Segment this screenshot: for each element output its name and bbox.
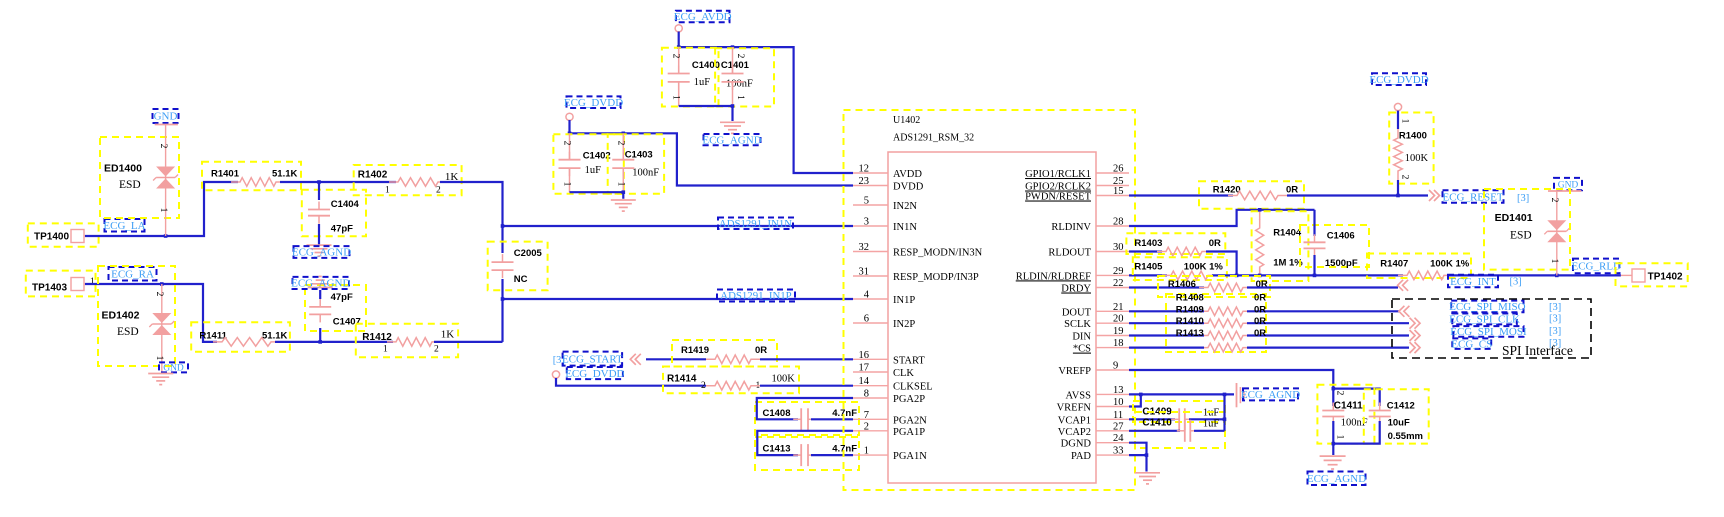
svg-text:R1402: R1402 xyxy=(358,170,388,181)
wire ADS1291_IN1P to pin 4 xyxy=(503,298,854,300)
wire R1411 to R1412 xyxy=(275,341,393,343)
svg-text:ADS1291_RSM_32: ADS1291_RSM_32 xyxy=(893,133,974,144)
svg-text:ECG_SPI_MOSI: ECG_SPI_MOSI xyxy=(1450,326,1527,338)
svg-text:26: 26 xyxy=(1113,164,1124,175)
wire RLDOUT through R1403 xyxy=(1129,250,1162,252)
svg-text:2: 2 xyxy=(701,381,706,391)
wire C1412 bottom rail xyxy=(1333,421,1379,444)
wire DVDD rail xyxy=(570,120,854,186)
svg-text:VREFP: VREFP xyxy=(1058,366,1091,377)
pin 9 VREFP xyxy=(1096,369,1129,371)
svg-text:ECG_AGND: ECG_AGND xyxy=(1241,389,1300,401)
svg-text:RLDINV: RLDINV xyxy=(1051,222,1091,233)
svg-text:PWDN/RESET: PWDN/RESET xyxy=(1025,192,1092,203)
pin 11 VCAP1 xyxy=(1096,418,1129,420)
svg-text:IN2N: IN2N xyxy=(893,201,917,212)
svg-text:13: 13 xyxy=(1113,385,1124,396)
svg-text:51.1K: 51.1K xyxy=(272,169,297,180)
capacitor C1413 4.7nF xyxy=(755,437,859,470)
sheet-entry chevrons ECG_RESET xyxy=(1429,190,1440,201)
pin 26 GPIO1/RCLK1 xyxy=(1096,172,1129,174)
svg-text:[3]: [3] xyxy=(1549,302,1561,313)
pin 29 RLDIN/RLDREF xyxy=(1096,274,1129,276)
op-amp/afe IC U1402 ADS1291 body xyxy=(844,110,1136,490)
svg-text:2: 2 xyxy=(864,421,869,432)
capacitor C1409 1uF xyxy=(1133,401,1225,422)
svg-text:33: 33 xyxy=(1113,446,1124,457)
svg-text:14: 14 xyxy=(859,376,870,387)
svg-text:GND: GND xyxy=(163,364,184,374)
net label ECG_RESET with [3] xyxy=(1443,190,1504,203)
ground symbol (DGND/PAD) xyxy=(1135,472,1160,474)
svg-text:2: 2 xyxy=(735,54,745,59)
svg-text:DOUT: DOUT xyxy=(1062,307,1092,318)
sheet-entry chevrons ECG_INT xyxy=(1398,280,1409,291)
svg-text:18: 18 xyxy=(1113,338,1124,349)
svg-text:5: 5 xyxy=(864,196,869,207)
svg-text:CLKSEL: CLKSEL xyxy=(893,382,933,393)
resistor R1419 0R xyxy=(672,340,777,367)
svg-text:2: 2 xyxy=(434,345,439,355)
svg-text:SCLK: SCLK xyxy=(1064,319,1091,330)
pin 1 PGA1N xyxy=(853,454,888,456)
wire ECG_CS xyxy=(1129,347,1204,349)
pin 23 DVDD xyxy=(853,185,888,187)
net label ECG_SPI_MOSI with [3] xyxy=(1453,326,1523,337)
ground symbol (C1402/C1403) xyxy=(611,199,636,201)
svg-text:R1408: R1408 xyxy=(1176,293,1204,304)
svg-text:ECG_AGND: ECG_AGND xyxy=(1307,473,1366,485)
svg-text:R1404: R1404 xyxy=(1273,228,1302,239)
wire PGA2P to C1408 xyxy=(757,398,853,419)
svg-text:100K 1%: 100K 1% xyxy=(1430,259,1470,270)
svg-text:NC: NC xyxy=(514,274,528,285)
power port ECG_AGND (below C1411) xyxy=(1308,472,1366,486)
svg-text:ED1402: ED1402 xyxy=(102,310,140,322)
pin 5 IN2N xyxy=(853,204,888,206)
svg-text:ECG_RESET: ECG_RESET xyxy=(1442,191,1503,203)
pin 20 SCLK xyxy=(1096,322,1129,324)
svg-text:15: 15 xyxy=(1113,186,1124,197)
svg-text:10: 10 xyxy=(1113,397,1124,408)
wire VCAP join to AVSS rail xyxy=(1223,394,1225,430)
wire CLKSEL xyxy=(556,378,706,386)
svg-text:ECG_DVDD: ECG_DVDD xyxy=(565,368,624,380)
svg-text:2: 2 xyxy=(671,54,681,59)
svg-text:*CS: *CS xyxy=(1073,344,1091,355)
svg-text:0R: 0R xyxy=(1254,328,1266,339)
svg-text:7: 7 xyxy=(864,410,869,421)
resistor R1401 51.1K xyxy=(202,162,301,191)
ESD diode ED1401 xyxy=(1484,189,1570,270)
resistor R1406 0R xyxy=(1158,276,1270,297)
capacitor C1402 1uF xyxy=(553,134,623,193)
wire R1419 to pin 16 xyxy=(760,358,853,360)
pin 3 IN1N xyxy=(853,225,888,227)
wire ECG_LA from TP1400 to R1401 xyxy=(85,182,238,236)
wire C1408 to pin 7 xyxy=(811,418,853,420)
net label ECG_SPI_CLK with [3] xyxy=(1452,314,1517,325)
svg-text:R1410: R1410 xyxy=(1176,316,1204,327)
wire AVSS/VREFN to ECG_AGND xyxy=(1129,393,1234,395)
wire RLDINV to feedback rail xyxy=(1129,210,1315,226)
svg-text:1: 1 xyxy=(864,446,869,457)
pin 15 PWDN/RESET xyxy=(1096,195,1129,197)
ground symbol (C1400/C1401) xyxy=(720,121,745,123)
svg-text:0R: 0R xyxy=(1254,304,1266,315)
svg-text:VCAP2: VCAP2 xyxy=(1058,427,1091,438)
svg-text:2: 2 xyxy=(562,141,572,146)
svg-text:23: 23 xyxy=(859,176,870,187)
svg-text:2: 2 xyxy=(154,292,164,297)
power port ECG_DVDD (C1402) xyxy=(567,96,621,108)
svg-text:C1402: C1402 xyxy=(583,151,611,162)
pin 33 PAD xyxy=(1096,454,1129,456)
pin 31 RESP_MODP/IN3P xyxy=(853,275,888,277)
svg-text:DVDD: DVDD xyxy=(893,182,924,193)
resistor R1403 0R xyxy=(1126,233,1225,254)
svg-text:R1406: R1406 xyxy=(1168,279,1196,290)
svg-text:22: 22 xyxy=(1113,278,1124,289)
svg-text:R1405: R1405 xyxy=(1134,262,1163,273)
svg-text:100nF: 100nF xyxy=(726,79,753,90)
svg-text:1: 1 xyxy=(562,182,572,187)
svg-text:100nF: 100nF xyxy=(632,168,659,179)
svg-text:CLK: CLK xyxy=(893,368,914,379)
sheet-entry chevrons ECG_START xyxy=(630,354,641,365)
svg-text:PGA2N: PGA2N xyxy=(893,415,927,426)
resistor R1412 1K xyxy=(356,324,458,358)
svg-text:0R: 0R xyxy=(1254,293,1266,304)
svg-text:ECG_DVDD: ECG_DVDD xyxy=(564,97,623,109)
pin 6 IN2P xyxy=(853,322,888,324)
resistor R1420 0R xyxy=(1199,181,1304,209)
pin 27 VCAP2 xyxy=(1096,430,1129,432)
svg-text:ECG_SPI_CLK: ECG_SPI_CLK xyxy=(1449,314,1520,326)
svg-text:2: 2 xyxy=(1549,198,1559,203)
svg-text:1: 1 xyxy=(385,186,390,196)
svg-text:1: 1 xyxy=(383,345,388,355)
svg-text:[3]: [3] xyxy=(1549,314,1561,325)
svg-text:ECG_CS: ECG_CS xyxy=(1451,338,1492,350)
wire START xyxy=(646,358,706,360)
svg-text:C1401: C1401 xyxy=(721,60,750,71)
capacitor C1400 1uF xyxy=(662,48,719,107)
svg-text:ADS1291_IN1P: ADS1291_IN1P xyxy=(720,290,791,302)
svg-text:4: 4 xyxy=(864,290,870,301)
capacitor C1406 1500pF xyxy=(1300,225,1369,267)
svg-text:28: 28 xyxy=(1113,217,1124,228)
svg-text:47pF: 47pF xyxy=(331,224,353,235)
svg-text:100K: 100K xyxy=(772,374,796,385)
capacitor C2005 NC xyxy=(488,242,548,291)
svg-text:2: 2 xyxy=(615,141,625,146)
wire R1401 to R1402 xyxy=(280,181,396,183)
svg-text:START: START xyxy=(893,355,925,366)
wire C1402/C1403 ground rail xyxy=(570,192,624,199)
svg-text:6: 6 xyxy=(864,314,869,325)
svg-text:21: 21 xyxy=(1113,302,1124,313)
svg-text:29: 29 xyxy=(1113,266,1124,277)
net label ADS1291_IN1P xyxy=(717,290,795,302)
resistor R1411 51.1K xyxy=(191,322,290,351)
power port GND (ED1402) xyxy=(159,362,188,372)
svg-text:R1401: R1401 xyxy=(211,169,240,180)
resistor R1407 100K 1% xyxy=(1367,254,1471,279)
pin 12 AVDD xyxy=(853,172,888,174)
wire C1413 to pin 1 xyxy=(811,454,853,456)
svg-text:1uF: 1uF xyxy=(1203,419,1220,430)
svg-text:IN2P: IN2P xyxy=(893,319,915,330)
power port ECG_AGND (below C1404) xyxy=(307,244,332,246)
svg-text:ECG_LA: ECG_LA xyxy=(103,220,145,232)
svg-text:ECG_AGND: ECG_AGND xyxy=(291,278,350,290)
wire PWDN/RESET to ECG_RESET xyxy=(1129,194,1233,196)
net label ECG_INT with [3] xyxy=(1448,275,1498,288)
testpoint TP1400 xyxy=(28,223,99,246)
svg-text:1uF: 1uF xyxy=(585,165,602,176)
capacitor C1411 100nF xyxy=(1317,385,1374,444)
svg-text:ECG_AGND: ECG_AGND xyxy=(702,134,761,146)
wire VCAP2 through C1410 xyxy=(1129,430,1180,432)
wire DRDY to ECG_INT xyxy=(1129,286,1204,288)
pin 17 CLK xyxy=(853,371,888,373)
svg-text:1: 1 xyxy=(1400,119,1410,124)
svg-text:[3]: [3] xyxy=(1517,193,1529,204)
ESD diode ED1400 xyxy=(100,137,179,218)
svg-text:2: 2 xyxy=(158,144,168,149)
wire C2005 lower to R1412 node xyxy=(501,279,503,342)
wire RLDIN/RLDREF to ECG_RLD xyxy=(1129,274,1167,276)
svg-text:C1404: C1404 xyxy=(331,199,360,210)
capacitor C1403 100nF xyxy=(608,134,664,193)
svg-text:PGA1P: PGA1P xyxy=(893,427,925,438)
svg-text:0R: 0R xyxy=(755,345,767,356)
svg-text:1: 1 xyxy=(154,356,164,361)
svg-text:ADS1291_IN1N: ADS1291_IN1N xyxy=(719,218,792,230)
svg-text:2: 2 xyxy=(436,186,441,196)
resistor R1404 1M 1% xyxy=(1252,211,1309,281)
svg-text:RESP_MODP/IN3P: RESP_MODP/IN3P xyxy=(893,272,979,283)
pin 13 AVSS xyxy=(1096,393,1129,395)
svg-text:ECG_RLD: ECG_RLD xyxy=(1572,261,1622,273)
svg-text:2: 2 xyxy=(1335,391,1345,396)
wire C1400/C1401 ground rail xyxy=(679,106,733,121)
svg-text:100K: 100K xyxy=(1405,153,1429,164)
svg-text:SPI Interface: SPI Interface xyxy=(1502,343,1573,358)
power port ECG_AVDD xyxy=(676,11,730,23)
svg-text:31: 31 xyxy=(859,267,870,278)
svg-text:RLDIN/RLDREF: RLDIN/RLDREF xyxy=(1016,271,1091,282)
net label ECG_SPI_MISO with [3] xyxy=(1451,301,1523,313)
power port ECG_DVDD (R1414) xyxy=(567,367,623,379)
svg-text:DRDY: DRDY xyxy=(1061,284,1091,295)
svg-text:3: 3 xyxy=(864,217,869,228)
wire PGA1P to C1413 xyxy=(757,431,853,455)
pin 8 PGA2P xyxy=(853,397,888,399)
svg-text:10uF: 10uF xyxy=(1388,418,1410,429)
ESD diode ED1402 xyxy=(98,266,175,366)
net label ECG_RLD xyxy=(1573,259,1620,274)
pin 10 VREFN xyxy=(1096,406,1129,408)
junction ECG_LA/ED1400 xyxy=(164,234,168,238)
svg-text:2: 2 xyxy=(1400,175,1410,180)
svg-text:C1409: C1409 xyxy=(1142,407,1172,418)
pin 2 PGA1P xyxy=(853,430,888,432)
svg-text:0R: 0R xyxy=(1286,185,1298,196)
svg-text:ECG_START: ECG_START xyxy=(562,353,623,365)
svg-text:ED1400: ED1400 xyxy=(104,163,142,175)
svg-text:R1413: R1413 xyxy=(1176,328,1204,339)
svg-text:1: 1 xyxy=(90,277,95,287)
svg-text:ECG_SPI_MISO: ECG_SPI_MISO xyxy=(1449,301,1525,313)
svg-text:4.7nF: 4.7nF xyxy=(832,444,857,455)
svg-text:R1414: R1414 xyxy=(667,374,697,385)
wire VREFP to C1411/C1412 xyxy=(1129,370,1333,406)
svg-text:AVSS: AVSS xyxy=(1066,390,1092,401)
resistor R1400 100K xyxy=(1389,113,1433,184)
svg-text:IN1P: IN1P xyxy=(893,295,915,306)
SPI Interface block box xyxy=(1392,299,1591,358)
svg-text:17: 17 xyxy=(859,363,870,374)
svg-text:RLDOUT: RLDOUT xyxy=(1048,248,1091,259)
pin 28 RLDINV xyxy=(1096,225,1129,227)
svg-text:[3]: [3] xyxy=(1549,326,1561,337)
svg-text:C1412: C1412 xyxy=(1387,401,1415,412)
resistor R1402 1K xyxy=(354,165,462,195)
svg-text:ECG_AGND: ECG_AGND xyxy=(292,247,351,259)
svg-text:PGA1N: PGA1N xyxy=(893,451,927,462)
power port GND (top left) xyxy=(153,109,179,123)
svg-text:ECG_DVDD: ECG_DVDD xyxy=(1369,74,1428,86)
svg-text:IN1N: IN1N xyxy=(893,222,917,233)
wire ECG_SPI_MOSI xyxy=(1129,334,1204,336)
svg-text:1uF: 1uF xyxy=(694,77,711,88)
svg-text:U1402: U1402 xyxy=(893,115,920,126)
svg-text:PAD: PAD xyxy=(1071,451,1091,462)
wire ECG_SPI_CLK xyxy=(1129,322,1204,324)
svg-text:[3]: [3] xyxy=(1510,276,1522,287)
svg-text:TP1402: TP1402 xyxy=(1648,272,1683,283)
svg-text:1M 1%: 1M 1% xyxy=(1273,258,1303,269)
svg-text:TP1400: TP1400 xyxy=(34,232,69,243)
ground symbol (C1411) xyxy=(1320,455,1346,457)
power port ECG_AGND (AVSS rail, sideways bars) xyxy=(1236,383,1238,407)
svg-text:VREFN: VREFN xyxy=(1057,403,1092,414)
pin 24 DGND xyxy=(1096,442,1129,444)
svg-text:R1419: R1419 xyxy=(681,345,709,356)
svg-text:RESP_MODN/IN3N: RESP_MODN/IN3N xyxy=(893,248,983,259)
svg-text:9: 9 xyxy=(1113,361,1118,372)
capacitor C1408 4.7nF xyxy=(755,402,859,435)
svg-text:GPIO1/RCLK1: GPIO1/RCLK1 xyxy=(1025,169,1091,180)
resistor cluster box R1408/R1409/R1410/R1413 xyxy=(1166,294,1266,352)
pin 19 DIN xyxy=(1096,335,1129,337)
resistor R1414 100K xyxy=(663,367,799,394)
net label ADS1291_IN1N xyxy=(718,218,793,230)
junction C1407 tap xyxy=(318,340,322,344)
svg-text:R1409: R1409 xyxy=(1176,304,1204,315)
svg-text:GND: GND xyxy=(154,111,178,123)
wire ADS1291_IN1N to pin 3 xyxy=(503,225,854,227)
svg-text:32: 32 xyxy=(859,242,870,253)
svg-text:11: 11 xyxy=(1113,410,1123,421)
svg-text:20: 20 xyxy=(1113,314,1124,325)
svg-text:12: 12 xyxy=(859,164,870,175)
svg-text:47pF: 47pF xyxy=(331,292,353,303)
svg-text:C1408: C1408 xyxy=(763,408,791,419)
pin 4 IN1P xyxy=(853,298,888,300)
resistor R1405 100K 1% xyxy=(1133,257,1227,280)
svg-text:VCAP1: VCAP1 xyxy=(1058,415,1091,426)
power port ECG_DVDD (R1400) xyxy=(1372,73,1426,85)
svg-text:1: 1 xyxy=(615,182,625,187)
pin 30 RLDOUT xyxy=(1096,251,1129,253)
svg-text:51.1K: 51.1K xyxy=(262,330,287,341)
svg-text:100K 1%: 100K 1% xyxy=(1184,262,1224,273)
svg-text:DIN: DIN xyxy=(1072,332,1091,343)
pin 7 PGA2N xyxy=(853,418,888,420)
testpoint TP1403 xyxy=(26,271,96,297)
svg-text:PGA2P: PGA2P xyxy=(893,394,925,405)
svg-text:4.7nF: 4.7nF xyxy=(832,408,857,419)
pin 25 GPIO2/RCLK2 xyxy=(1096,185,1129,187)
junction ECG_RA/ED1402 xyxy=(160,282,164,286)
svg-text:8: 8 xyxy=(864,389,869,400)
svg-text:R1403: R1403 xyxy=(1134,238,1162,249)
svg-text:0R: 0R xyxy=(1209,238,1221,249)
pin 14 CLKSEL xyxy=(853,385,888,387)
capacitor C1410 1uF xyxy=(1135,412,1225,448)
svg-text:C1410: C1410 xyxy=(1142,418,1172,429)
capacitor C1401 100nF xyxy=(715,48,774,106)
wire R1412 to IN1P node xyxy=(434,341,503,343)
svg-text:C1406: C1406 xyxy=(1327,231,1355,242)
svg-text:AVDD: AVDD xyxy=(893,169,922,180)
svg-text:ECG_INT: ECG_INT xyxy=(1450,276,1496,288)
svg-text:1500pF: 1500pF xyxy=(1325,258,1358,269)
net label ECG_CS with [3] xyxy=(1452,338,1491,349)
power port GND (ED1401) xyxy=(1554,178,1582,190)
junction C1404 tap xyxy=(317,180,321,184)
svg-text:R1420: R1420 xyxy=(1213,185,1241,196)
svg-text:C1413: C1413 xyxy=(763,444,791,455)
svg-text:R1400: R1400 xyxy=(1399,131,1427,142)
svg-text:ECG_RA: ECG_RA xyxy=(111,268,154,280)
power port ECG_AGND (above C1407) xyxy=(308,287,333,289)
svg-text:ESD: ESD xyxy=(119,179,141,191)
pin 16 START xyxy=(853,358,888,360)
svg-text:0R: 0R xyxy=(1254,316,1266,327)
svg-text:1: 1 xyxy=(158,208,168,213)
wire AVDD rail xyxy=(679,32,853,174)
svg-text:1: 1 xyxy=(1335,435,1345,440)
svg-text:16: 16 xyxy=(859,350,870,361)
svg-text:1: 1 xyxy=(735,95,745,100)
net label ECG_RA xyxy=(109,267,157,281)
wire ECG_SPI_MISO xyxy=(1129,310,1204,312)
svg-text:R1407: R1407 xyxy=(1380,259,1408,270)
svg-text:24: 24 xyxy=(1113,433,1124,444)
pin 32 RESP_MODN/IN3N xyxy=(853,251,888,253)
svg-text:19: 19 xyxy=(1113,326,1124,337)
svg-text:1: 1 xyxy=(1549,259,1559,264)
power port ECG_AGND (below C1400/C1401) xyxy=(704,134,761,145)
svg-text:1: 1 xyxy=(671,95,681,100)
capacitor C1404 47pF xyxy=(302,190,366,237)
wire DGND/PAD to ground xyxy=(1129,443,1147,455)
wire ECG_RA from TP1403 to R1411 xyxy=(85,284,217,342)
